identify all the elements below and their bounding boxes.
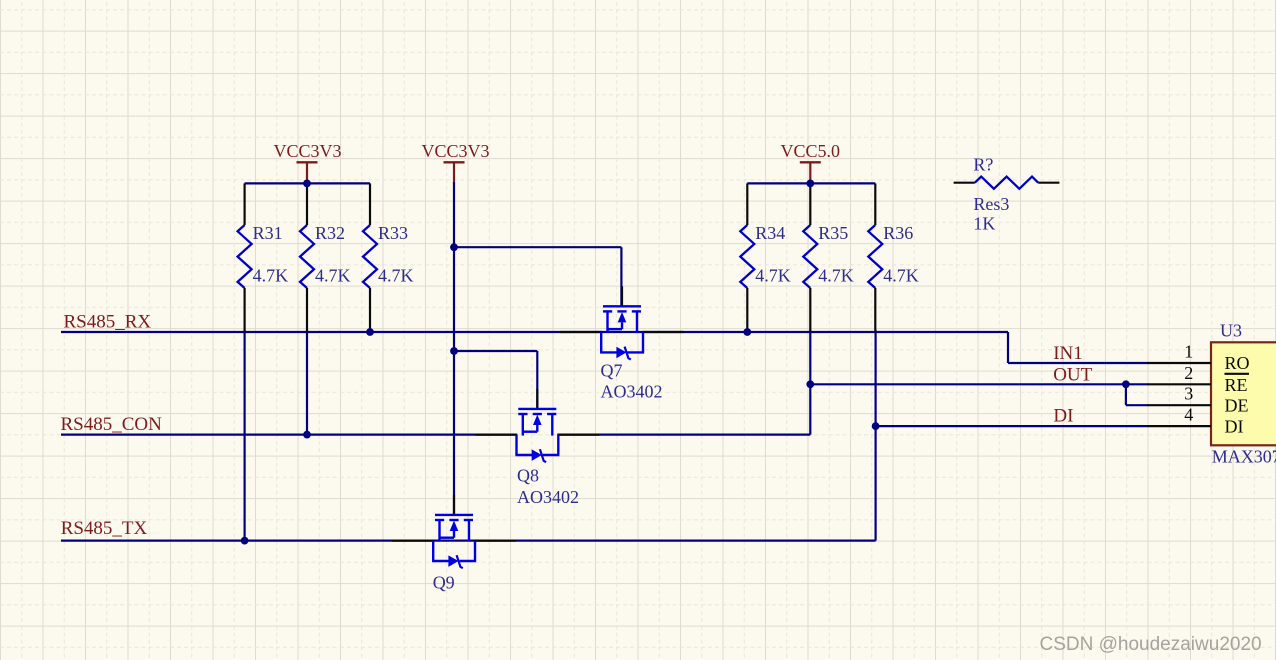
junction at 810.3,384.3 <box>806 380 814 388</box>
svg-text:4.7K: 4.7K <box>253 266 289 286</box>
wire: VCC3V3 column to Q9 gate <box>453 182 455 515</box>
resistor R33 <box>363 183 377 331</box>
wire: R31 column lower <box>244 330 246 541</box>
junction at 307,183.4 <box>303 180 311 188</box>
svg-text:4.7K: 4.7K <box>818 266 854 286</box>
junction at 747.3,332.0 <box>743 328 751 336</box>
junction at 810.3,183.4 <box>806 180 814 188</box>
svg-text:IN1: IN1 <box>1053 343 1083 364</box>
svg-text:U3: U3 <box>1220 321 1242 341</box>
resistor R36 <box>868 183 882 331</box>
wire: Q8 gate feed horizontal <box>454 350 537 352</box>
svg-text:1: 1 <box>1184 342 1193 362</box>
svg-text:R?: R? <box>973 155 993 175</box>
wire: Q7 gate feed horizontal <box>454 246 621 248</box>
pin 1 of U3 <box>1148 362 1211 364</box>
junction at 244.6,540.6 <box>241 537 249 545</box>
wire: right VCC5.0 rail <box>747 182 875 184</box>
junction at 1125.9,384.3 <box>1122 380 1130 388</box>
resistor R? Res3 1K <box>954 177 1060 189</box>
wire: pin3 jog vertical <box>1125 384 1127 405</box>
wire: Q8 gate feed vertical <box>536 351 538 409</box>
svg-text:4.7K: 4.7K <box>315 266 351 286</box>
svg-text:1K: 1K <box>973 213 995 233</box>
svg-text:R32: R32 <box>315 223 345 243</box>
svg-text:RS485_CON: RS485_CON <box>61 414 163 435</box>
wire: RS485_RX net <box>61 331 1008 333</box>
wire: RS485_CON net <box>61 434 517 436</box>
wire: Q8 drain to R35 column <box>559 434 810 436</box>
svg-text:VCC5.0: VCC5.0 <box>781 141 841 161</box>
svg-text:2: 2 <box>1184 363 1193 383</box>
svg-text:RS485_TX: RS485_TX <box>61 518 148 539</box>
power symbol PWR3 VCC5.0 <box>781 141 841 183</box>
svg-text:DE: DE <box>1225 396 1249 416</box>
junction at 454,247.2 <box>450 243 458 251</box>
svg-text:OUT: OUT <box>1053 365 1092 386</box>
svg-text:R35: R35 <box>818 223 848 243</box>
svg-text:MAX3072: MAX3072 <box>1212 446 1276 466</box>
svg-text:R33: R33 <box>378 223 408 243</box>
svg-text:Q7: Q7 <box>601 361 623 381</box>
IC U3 MAX3072 body <box>1211 342 1276 445</box>
wire: R35 column lower <box>809 330 811 435</box>
svg-text:R31: R31 <box>253 223 283 243</box>
svg-text:DI: DI <box>1053 406 1073 427</box>
svg-text:4.7K: 4.7K <box>378 266 414 286</box>
wire: Q7 gate feed vertical <box>620 247 622 306</box>
pin 2 of U3 <box>1148 383 1211 385</box>
svg-text:4: 4 <box>1184 405 1193 425</box>
svg-text:RE: RE <box>1225 375 1248 395</box>
transistor Q7 AO3402 N-MOSFET <box>560 286 684 359</box>
junction at 307,434.6 <box>303 431 311 439</box>
resistor R32 <box>300 183 314 331</box>
wire: RX corner vertical <box>1007 332 1009 363</box>
wire: TX riser / R36 column <box>874 330 876 541</box>
junction at 875.6,426.1 <box>872 422 880 430</box>
transistor Q9 AO3402 N-MOSFET <box>392 495 516 568</box>
resistor R31 <box>238 183 252 331</box>
svg-text:R36: R36 <box>883 223 913 243</box>
overline of pin name RE <box>1225 373 1250 375</box>
svg-text:3: 3 <box>1184 384 1193 404</box>
wire: R32 column lower <box>306 330 308 435</box>
pin 4 of U3 <box>1148 425 1211 427</box>
svg-text:Q9: Q9 <box>433 572 455 592</box>
power symbol PWR2 VCC3V3 <box>421 141 489 183</box>
wire: left VCC3V3 rail <box>245 182 370 184</box>
svg-text:RO: RO <box>1225 353 1250 373</box>
svg-text:DI: DI <box>1225 417 1244 437</box>
svg-text:VCC3V3: VCC3V3 <box>273 141 341 161</box>
svg-text:VCC3V3: VCC3V3 <box>421 141 489 161</box>
svg-text:CSDN @houdezaiwu2020: CSDN @houdezaiwu2020 <box>1040 634 1262 655</box>
wire: DI net to pin4 <box>876 425 1149 427</box>
svg-text:AO3402: AO3402 <box>601 382 663 402</box>
svg-text:Q8: Q8 <box>517 466 539 486</box>
transistor Q8 AO3402 N-MOSFET <box>475 389 599 462</box>
wire: IN1 wire to pin1 <box>1008 362 1149 364</box>
wire: RS485_TX net <box>61 539 876 541</box>
svg-text:AO3402: AO3402 <box>517 487 579 507</box>
junction at 454,351 <box>450 347 458 355</box>
svg-text:4.7K: 4.7K <box>883 266 919 286</box>
svg-text:Res3: Res3 <box>973 194 1009 214</box>
junction at 370,332.0 <box>366 328 374 336</box>
svg-text:RS485_RX: RS485_RX <box>64 311 152 332</box>
resistor R35 <box>803 183 817 331</box>
resistor R34 <box>740 183 754 331</box>
svg-text:R34: R34 <box>755 223 785 243</box>
power symbol PWR1 VCC3V3 <box>273 141 341 183</box>
wire: pin3 jog horizontal <box>1126 404 1149 406</box>
wire: OUT net to pin2 <box>810 383 1148 385</box>
pin 3 of U3 <box>1148 404 1211 406</box>
svg-text:4.7K: 4.7K <box>755 266 791 286</box>
